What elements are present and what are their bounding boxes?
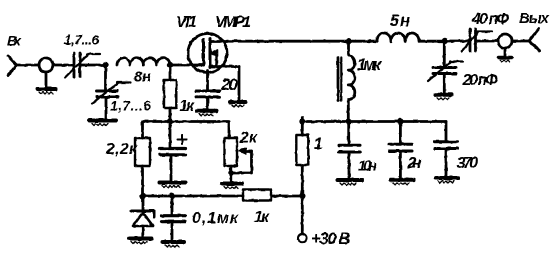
svg-text:40 пФ: 40 пФ [471, 11, 510, 28]
svg-text:370: 370 [457, 155, 479, 172]
svg-text:1: 1 [314, 135, 323, 153]
svg-text:+30 В: +30 В [311, 230, 351, 248]
svg-text:1к: 1к [254, 209, 270, 226]
svg-text:20 пФ: 20 пФ [462, 72, 499, 89]
svg-text:1к: 1к [179, 98, 195, 115]
svg-text:10н: 10н [358, 159, 377, 175]
svg-text:Вх: Вх [7, 33, 22, 49]
svg-text:8н: 8н [134, 69, 151, 86]
svg-text:2н: 2н [407, 155, 422, 172]
svg-text:VMP1: VMP1 [215, 14, 251, 31]
svg-text:2,2к: 2,2к [105, 141, 138, 158]
svg-text:1мк: 1мк [357, 56, 383, 74]
svg-text:Вых: Вых [519, 10, 550, 27]
svg-text:20: 20 [220, 75, 239, 94]
svg-text:0,1мк: 0,1мк [192, 210, 239, 227]
svg-text:1,7...6: 1,7...6 [110, 98, 151, 114]
svg-text:VT1: VT1 [176, 14, 197, 31]
svg-text:5н: 5н [390, 12, 410, 30]
svg-text:1,7...6: 1,7...6 [64, 33, 99, 48]
svg-text:2к: 2к [239, 130, 258, 147]
